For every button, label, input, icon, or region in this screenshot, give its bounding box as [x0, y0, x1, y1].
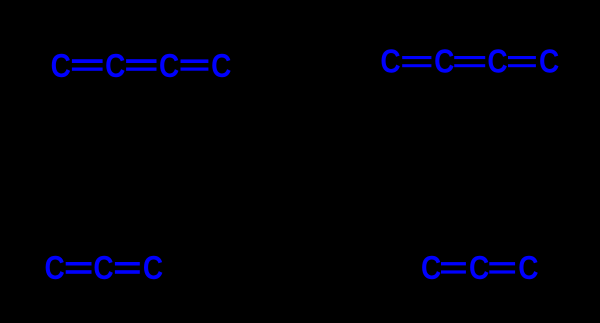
atom C3 — [159, 48, 179, 85]
svg-text:C: C — [421, 250, 441, 287]
double bond C2=C3 — [489, 262, 515, 274]
atom C1 — [421, 250, 441, 287]
svg-text:C: C — [143, 250, 163, 287]
svg-text:C: C — [44, 250, 64, 287]
atom C3 — [143, 250, 163, 287]
svg-text:C: C — [93, 250, 113, 287]
svg-text:C: C — [211, 48, 231, 85]
svg-text:C: C — [518, 250, 538, 287]
structure 1: cumulene C=C=C=C (top-left) — [51, 48, 232, 85]
double bond C2=C3 — [126, 59, 156, 71]
atom C1 — [44, 250, 64, 287]
double bond C2=C3 — [115, 262, 140, 274]
svg-text:C: C — [159, 48, 179, 85]
svg-text:C: C — [487, 43, 507, 80]
double bond C2=C3 — [454, 56, 485, 67]
atom C4 — [539, 43, 559, 80]
atom C3 — [518, 250, 538, 287]
svg-text:C: C — [434, 43, 454, 80]
double bond C1=C2 — [441, 262, 466, 274]
structure 4: allene C=C=C (bottom-right) — [421, 250, 539, 287]
svg-text:C: C — [539, 43, 559, 80]
atom C2 — [469, 250, 489, 287]
svg-text:C: C — [105, 48, 125, 85]
svg-text:C: C — [51, 48, 71, 85]
atom C3 — [487, 43, 507, 80]
structure 3: allene C=C=C (bottom-left) — [44, 250, 163, 287]
double bond C1=C2 — [402, 56, 431, 67]
svg-text:C: C — [380, 43, 400, 80]
svg-text:C: C — [469, 250, 489, 287]
atom C4 — [211, 48, 231, 85]
double bond C3=C4 — [181, 59, 209, 70]
structure 2: cumulene C=C=C=C (top-right) — [380, 43, 559, 80]
atom C2 — [434, 43, 454, 80]
atom C1 — [380, 43, 400, 80]
double bond C1=C2 — [72, 59, 103, 71]
atom C1 — [51, 48, 71, 85]
double bond C1=C2 — [66, 262, 92, 274]
atom C2 — [105, 48, 125, 85]
double bond C3=C4 — [508, 56, 536, 67]
atom C2 — [93, 250, 113, 287]
